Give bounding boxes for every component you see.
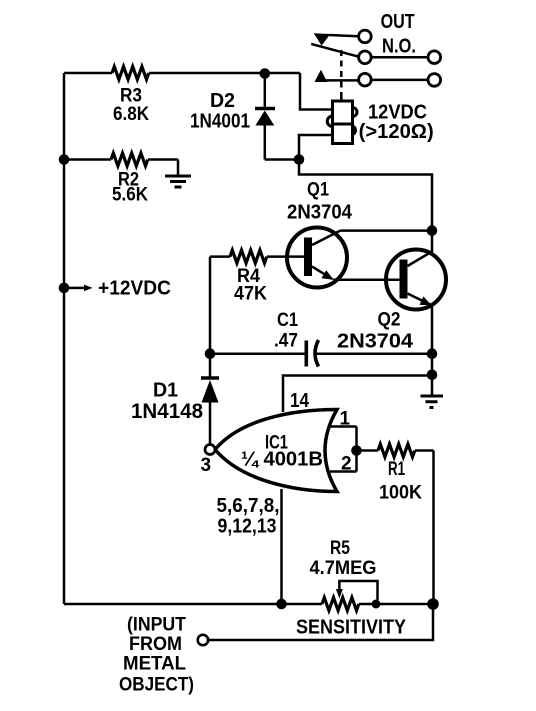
node C1 left junction [205, 348, 216, 359]
resistor R1 [378, 444, 415, 457]
svg-text:47K: 47K [234, 284, 267, 305]
svg-text:¼ 4001B: ¼ 4001B [241, 449, 323, 471]
wire left vertical rail [63, 73, 66, 604]
ground below Q2 [421, 396, 444, 408]
svg-text:1N4148: 1N4148 [131, 400, 203, 423]
svg-text:N.O.: N.O. [382, 36, 416, 58]
node contact circle middle [359, 51, 372, 64]
resistor R4 [230, 250, 267, 263]
wire C1 row [210, 352, 432, 355]
node input terminal circle [198, 635, 208, 645]
wire bottom contact to out [371, 79, 428, 82]
svg-text:5,6,7,8,: 5,6,7,8, [217, 495, 280, 517]
node bottom gate pin junction [276, 599, 287, 610]
wire Q1 collector to rail [340, 229, 432, 232]
node gate inputs junction [351, 445, 362, 456]
arrow +12VDC [69, 285, 93, 292]
wire pin14 net [283, 376, 432, 413]
svg-text:(>120Ω): (>120Ω) [359, 121, 434, 143]
node junction R2 left [59, 154, 70, 165]
resistor R5 potentiometer [322, 598, 359, 611]
svg-text:C1: C1 [277, 310, 298, 331]
node contact circle top [359, 30, 372, 43]
svg-text:OBJECT): OBJECT) [119, 675, 194, 696]
svg-text:.47: .47 [274, 331, 298, 352]
resistor R2 [111, 153, 148, 166]
svg-text:Q2: Q2 [378, 310, 401, 331]
wire input run [208, 604, 433, 640]
diode D1 [201, 378, 219, 403]
transistor Q2 [386, 250, 446, 310]
svg-text:2N3704: 2N3704 [337, 331, 414, 353]
op-amp gate IC1 (quarter 4001B NOR, mirrored) [205, 410, 337, 492]
svg-text:9,12,13: 9,12,13 [218, 516, 277, 538]
resistor R3 [112, 67, 149, 80]
wire Q2 emitter down to ground [431, 305, 434, 396]
svg-text:OUT: OUT [381, 11, 415, 33]
svg-text:R5: R5 [330, 538, 350, 559]
wire relay bottom to node [299, 135, 333, 160]
svg-text:2N3704: 2N3704 [287, 202, 353, 224]
wire R2 row [64, 160, 178, 176]
svg-text:METAL: METAL [123, 654, 186, 675]
wire gate bottom pin drop [280, 489, 283, 604]
capacitor C1 [306, 340, 318, 367]
svg-text:R1: R1 [388, 459, 405, 480]
node junction top of D2 [260, 68, 271, 79]
wire Q1 emitter to Q2 base [333, 279, 400, 282]
wire dashed relay actuator link [340, 50, 343, 96]
wire node to D2 anode [265, 158, 299, 161]
svg-text:5.6K: 5.6K [112, 185, 148, 206]
switch relay contacts N.O. [311, 33, 358, 82]
node junction bottom of D2 [294, 154, 305, 165]
wire node down and right to collector rail [299, 160, 432, 253]
wire mid vertical R4 to D1 to gate bubble [209, 257, 212, 445]
svg-text:D2: D2 [210, 90, 235, 112]
svg-text:100K: 100K [379, 483, 422, 504]
svg-text:(INPUT: (INPUT [127, 615, 186, 636]
wire R4 row [210, 255, 304, 258]
wire gate input stubs [330, 427, 357, 472]
svg-text:14: 14 [290, 390, 310, 412]
node +12VDC tap [59, 283, 70, 294]
svg-text:Q1: Q1 [307, 180, 329, 201]
diode D2 [255, 74, 275, 160]
svg-text:6.8K: 6.8K [113, 104, 149, 125]
node bottom right junction [427, 598, 439, 610]
wire middle contact to out [371, 56, 428, 59]
svg-text:+12VDC: +12VDC [98, 278, 171, 300]
node out circle bottom [428, 74, 441, 87]
svg-text:FROM: FROM [129, 634, 182, 655]
wire top rail to relay [64, 73, 333, 110]
svg-text:4.7MEG: 4.7MEG [310, 558, 377, 579]
relay coil 12VDC [327, 96, 357, 144]
node collector rail junction [427, 225, 438, 236]
ground near R2 [165, 176, 191, 187]
node pin14 net right junction [427, 370, 438, 381]
svg-text:D1: D1 [153, 380, 178, 402]
svg-text:3: 3 [201, 455, 212, 476]
wire R5 wiper [336, 581, 378, 600]
wire bottom rail [64, 603, 433, 606]
svg-text:1N4001: 1N4001 [190, 111, 250, 133]
svg-text:SENSITIVITY: SENSITIVITY [296, 617, 407, 639]
node out circle middle [428, 51, 441, 64]
node contact circle bottom [359, 73, 372, 86]
node R5 wiper junction [372, 600, 381, 609]
transistor Q1 [287, 228, 347, 288]
node C1 right junction [427, 348, 438, 359]
wire R1 row and right drop [357, 451, 434, 605]
